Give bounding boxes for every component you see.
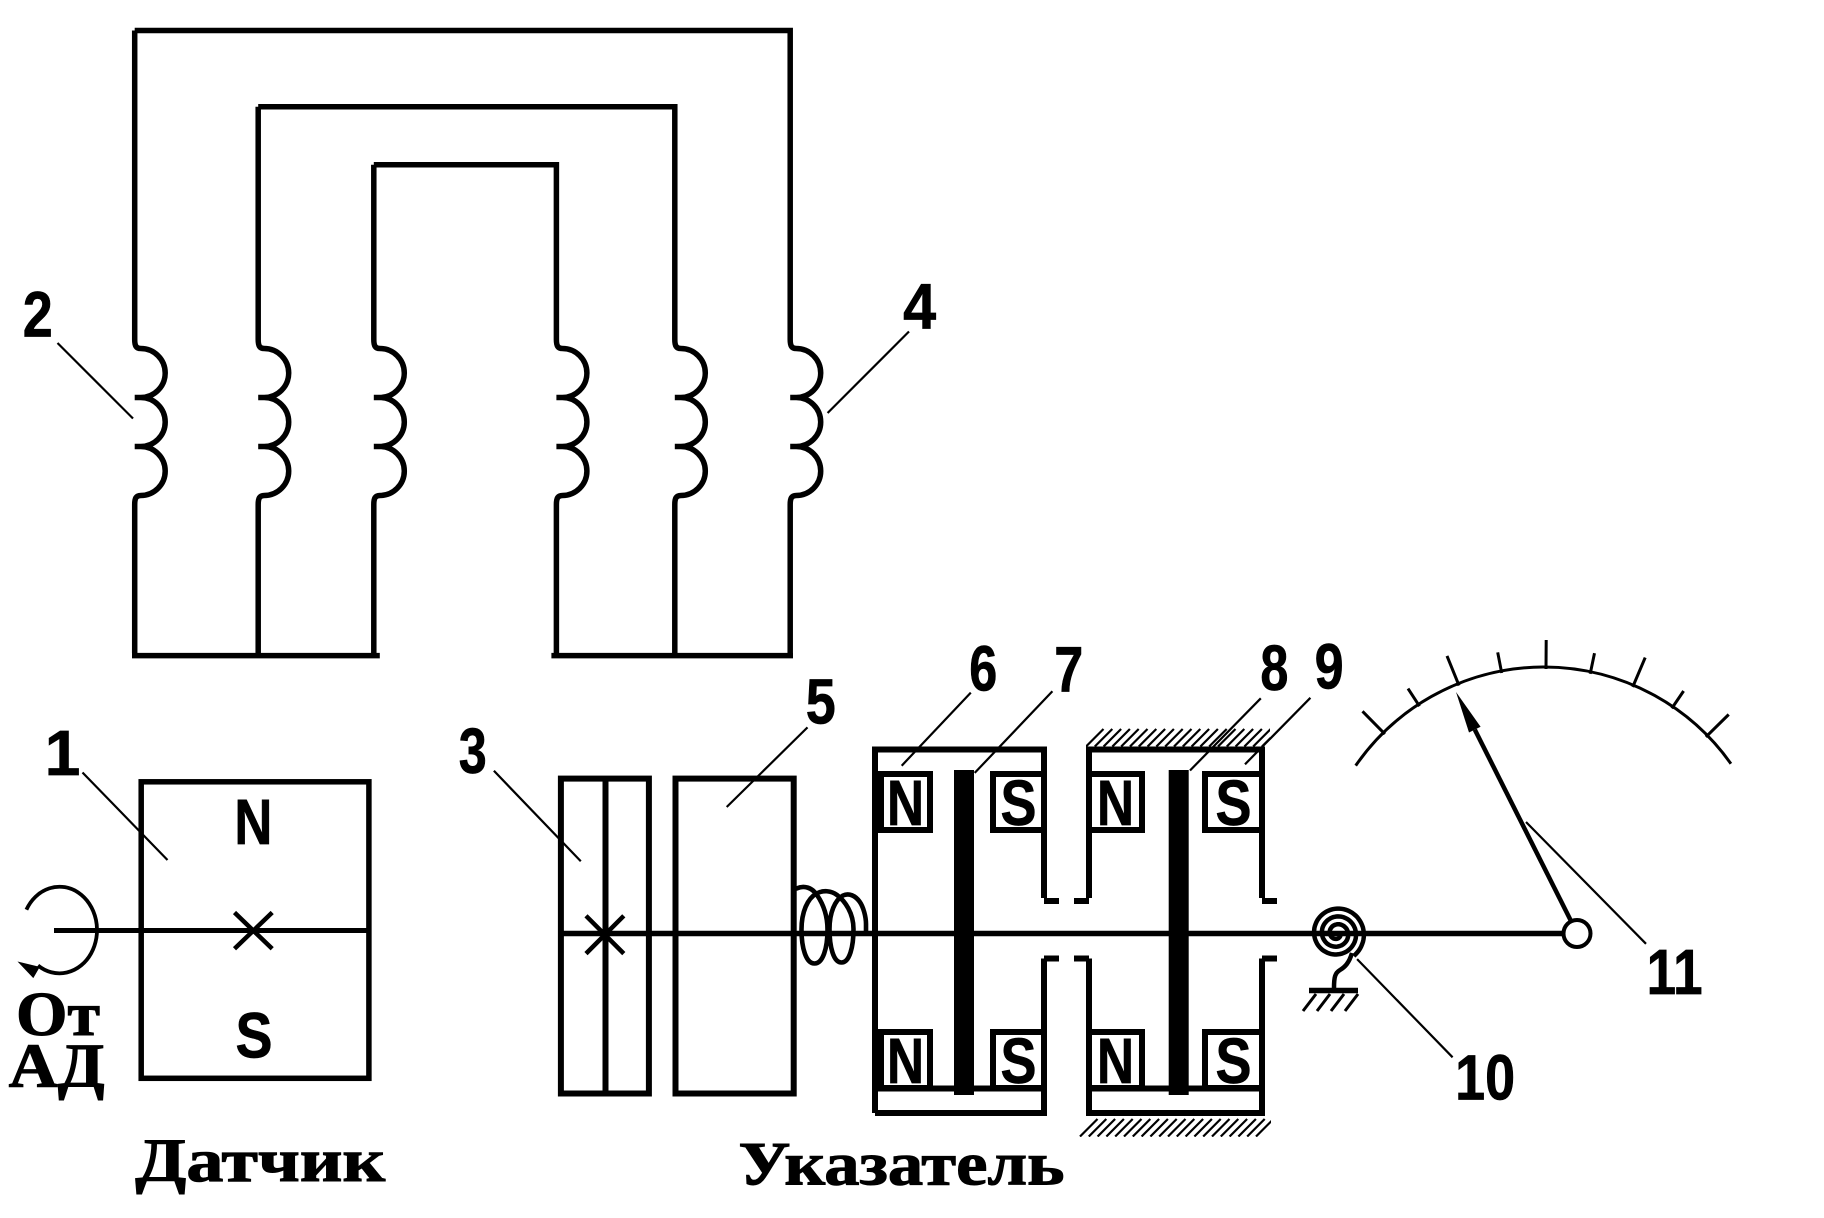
indicator shaft	[558, 931, 1564, 937]
core inner U	[374, 165, 587, 653]
leader 6	[902, 693, 971, 766]
svg-text:9: 9	[1315, 631, 1344, 703]
sensor shaft	[54, 928, 372, 933]
plate 5	[676, 779, 794, 1094]
disc 3 divider line	[603, 779, 609, 1094]
core bottom yoke right	[551, 653, 793, 659]
svg-text:N: N	[234, 786, 272, 858]
spring coupling	[797, 887, 867, 964]
svg-text:S: S	[1216, 1025, 1252, 1097]
svg-text:3: 3	[459, 715, 487, 787]
svg-text:10: 10	[1455, 1042, 1515, 1114]
ground symbol	[1309, 988, 1358, 994]
svg-text:N: N	[887, 767, 924, 839]
hairspring tail to ground	[1334, 953, 1352, 988]
magnet S bottom unit8	[1205, 1032, 1262, 1088]
leader 9	[1245, 698, 1310, 765]
svg-text:S: S	[236, 1000, 273, 1072]
magnet S top unit6	[993, 774, 1044, 830]
ground hatching	[1303, 994, 1358, 1011]
needle arrowhead	[1456, 692, 1481, 733]
svg-text:N: N	[1097, 1025, 1134, 1097]
scale ticks	[1363, 640, 1729, 737]
svg-text:7: 7	[1054, 633, 1083, 705]
pivot circle	[1564, 920, 1591, 947]
leader 5	[727, 727, 808, 807]
svg-text:11: 11	[1647, 936, 1703, 1008]
screen hatching top item9	[1086, 729, 1280, 747]
leader 8	[1190, 698, 1261, 770]
core bottom yoke left	[132, 653, 380, 659]
svg-text:5: 5	[806, 666, 836, 738]
leader 11	[1526, 822, 1646, 944]
svg-text:S: S	[1216, 767, 1252, 839]
scale arc	[1356, 667, 1731, 766]
disc 3 double plate	[561, 779, 649, 1094]
svg-text:6: 6	[969, 633, 997, 705]
svg-text:S: S	[1001, 767, 1037, 839]
svg-text:N: N	[1097, 767, 1134, 839]
magnet N bottom unit6	[881, 1032, 930, 1088]
magnet N top unit6	[881, 774, 930, 830]
leader 3	[494, 771, 581, 862]
shaft cross mark x1	[235, 913, 273, 949]
magnet N bottom unit8	[1089, 1032, 1142, 1088]
svg-text:S: S	[1001, 1025, 1037, 1097]
svg-text:8: 8	[1260, 632, 1288, 704]
svg-text:2: 2	[23, 278, 53, 350]
leader 7	[975, 691, 1053, 773]
rotation arrowhead	[18, 962, 40, 979]
magnet system 8 frame	[1074, 750, 1277, 1114]
hairspring 10	[1314, 909, 1364, 956]
core middle U	[258, 107, 705, 653]
magnet N top unit8	[1089, 774, 1142, 830]
svg-text:N: N	[887, 1025, 924, 1097]
svg-text:1: 1	[45, 717, 81, 789]
needle	[1475, 730, 1571, 921]
svg-text:Указатель: Указатель	[739, 1131, 1065, 1198]
leader 2	[58, 343, 134, 419]
magnet system 6 frame	[875, 750, 1059, 1114]
disc 7 black bar	[954, 770, 974, 1095]
magnet S bottom unit6	[993, 1032, 1044, 1088]
rotation arrow	[26, 887, 97, 974]
svg-text:АД: АД	[9, 1033, 105, 1101]
leader 1	[83, 773, 168, 861]
screen hatching bottom item9	[1080, 1119, 1274, 1137]
leader 4	[828, 332, 909, 414]
magnet 1 rotor box	[141, 782, 369, 1079]
leader 10	[1357, 959, 1453, 1057]
core outer U with coils 2,4	[135, 31, 821, 654]
disc black bar unit8	[1169, 770, 1189, 1095]
svg-text:Датчик: Датчик	[135, 1128, 386, 1195]
shaft cross mark x3	[586, 916, 624, 954]
magnet S top unit8	[1205, 774, 1262, 830]
